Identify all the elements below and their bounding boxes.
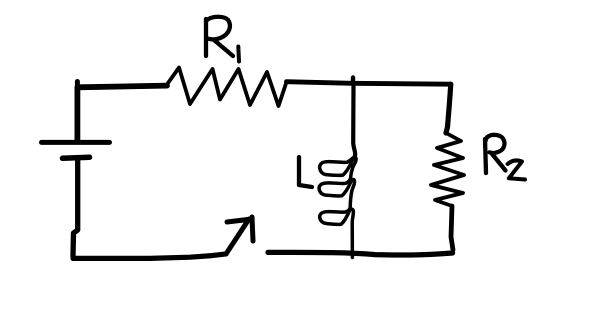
wire corner nub [75,82,80,89]
switch S1 blade [226,219,249,254]
resistor R1 [167,68,287,107]
resistor R2 [431,133,464,206]
label R2 letter R [485,139,486,173]
label L [299,157,312,187]
switch S1 arrowhead top bar [227,219,252,222]
label R1 subscript 1 [236,47,241,62]
switch S1 arrowhead right bar [252,217,253,241]
battery V1 long plate [42,140,110,145]
wire battery top lead and top-left wire [77,86,167,140]
label R2 subscript 2 [508,160,525,179]
wire bottom-left horizontal [73,254,226,259]
node junction top nub [351,78,355,85]
inductor L lead from junction [353,84,355,156]
wire top-right vertical to R2 [446,84,451,133]
wire bottom-right horizontal [268,252,453,255]
wire resistor R1 to top junction to top-right corner [287,82,451,85]
wire R2 to bottom-right corner [451,206,453,250]
battery V1 short plate [63,157,90,158]
label R1 letter R [204,19,208,56]
inductor L coil loops [319,156,356,258]
wire battery bottom lead [73,160,78,256]
